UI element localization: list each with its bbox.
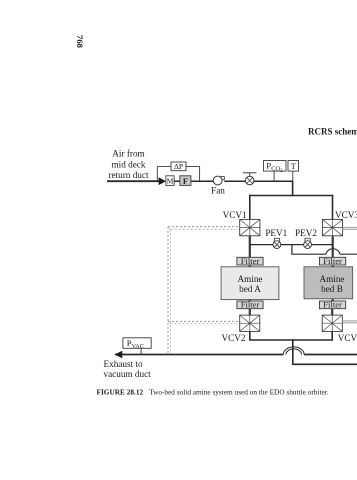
wire: down leg from main line to manifold: [292, 180, 294, 196]
wire: fan to valve: [224, 180, 245, 182]
connector bed B to filter B bottom: [331, 299, 334, 301]
wire: exhaust line left section: [115, 354, 283, 356]
F box (filter, shaded): [180, 176, 191, 186]
wire: VCV2 down and right to tee: [250, 331, 294, 340]
svg-text:Exhaust to: Exhaust to: [104, 359, 143, 369]
wire: PEV cross line: [250, 244, 333, 246]
filter A bottom: [237, 301, 263, 309]
control line (dashed) upper pair to VCV1: [168, 226, 240, 228]
svg-text:F: F: [183, 177, 188, 186]
crossover arc over VCV3-filter line: [326, 249, 340, 254]
svg-text:M: M: [167, 177, 174, 186]
amine bed A: [221, 267, 279, 300]
wire: PVAC tap: [140, 348, 142, 354]
svg-text:PEV2: PEV2: [295, 228, 317, 238]
wire: VCV1 to filter A top: [249, 236, 251, 257]
wire: M-F to fan (drawn beneath boxes): [174, 180, 214, 182]
valve VCV1: [240, 219, 260, 235]
wire: manifold drop to VCV1: [249, 195, 251, 220]
connector filter A top to bed A: [249, 265, 252, 267]
filter B bottom: [320, 301, 346, 309]
wire: filter A bottom to VCV2: [249, 309, 251, 315]
wire: T tap: [292, 171, 294, 180]
PCO2 sensor box: [264, 161, 287, 172]
svg-text:Filter: Filter: [323, 300, 342, 310]
crossover double arc over tee vertical: [283, 347, 304, 355]
control line (gray pair) from VCV3 to right edge: [343, 226, 357, 228]
svg-text:Amine: Amine: [237, 274, 262, 284]
wire: branch to right edge: [340, 253, 357, 255]
svg-text:return duct: return duct: [108, 170, 148, 180]
svg-text:RCRS schema: RCRS schema: [308, 127, 357, 137]
svg-text:VCV2: VCV2: [222, 333, 246, 343]
manual valve (circle-X with T handle): [249, 173, 251, 176]
svg-text:vacuum duct: vacuum duct: [104, 369, 152, 379]
svg-text:ΔP: ΔP: [174, 162, 183, 171]
svg-text:bed B: bed B: [321, 284, 343, 294]
PVAC sensor box: [123, 338, 151, 349]
wire: PCO2 tap: [273, 171, 275, 180]
svg-text:VCV4: VCV4: [338, 333, 357, 343]
svg-text:mid deck: mid deck: [112, 159, 146, 169]
svg-text:T: T: [291, 161, 297, 171]
svg-text:Filter: Filter: [241, 256, 260, 266]
svg-text:FIGURE 28.12Two-bed solid amin: FIGURE 28.12Two-bed solid amine system u…: [97, 388, 329, 397]
exhaust arrowhead: [115, 351, 123, 359]
wire: VCV4 down and left to tee: [292, 331, 332, 340]
valve PEV1: [273, 238, 281, 248]
wire: top manifold: [249, 195, 333, 197]
bypass loop around dP sensor: [157, 167, 171, 181]
svg-text:Filter: Filter: [241, 300, 260, 310]
label: Air from mid deck return duct: [108, 149, 148, 181]
M box (muffler): [166, 176, 174, 186]
T sensor box: [288, 161, 299, 172]
wire: tee down to lower line, off right edge: [293, 340, 357, 364]
wire: PEV branch drop: [292, 245, 326, 255]
fan symbol: [221, 177, 224, 180]
amine bed B: [304, 267, 353, 299]
svg-text:bed A: bed A: [239, 284, 261, 294]
valve VCV3: [322, 219, 342, 235]
dP sensor box: [171, 162, 186, 171]
wire: VCV3 to filter B top: [332, 236, 334, 257]
wire: valve to corner below T: [254, 180, 293, 182]
valve VCV2: [240, 315, 260, 331]
wire: filter B bottom to VCV4: [331, 309, 333, 315]
valve VCV4: [322, 315, 342, 331]
control line (gray pair) from VCV4 to right edge: [342, 320, 357, 322]
wire: manifold drop to VCV3: [332, 195, 334, 220]
control line (dashed) vertical pair: [167, 227, 169, 354]
svg-text:VCV1: VCV1: [223, 210, 247, 220]
valve PEV2: [304, 238, 312, 248]
connector bed A to filter A bottom: [249, 300, 252, 301]
connector filter B top to bed B: [331, 265, 334, 267]
filter A top: [237, 257, 263, 265]
svg-text:PEV1: PEV1: [265, 228, 287, 238]
wire: exhaust line right section: [304, 354, 357, 356]
control line (dashed) lower pair to VCV2: [168, 320, 240, 322]
svg-text:Filter: Filter: [323, 256, 342, 266]
wire: supply duct line: [107, 180, 160, 182]
arrowhead into M box: [159, 177, 166, 185]
svg-text:VCV3: VCV3: [335, 210, 357, 220]
label: Exhaust to vacuum duct: [104, 359, 152, 379]
svg-text:Amine: Amine: [319, 274, 344, 284]
filter B top: [320, 257, 346, 265]
svg-text:768: 768: [75, 35, 85, 49]
svg-text:Air from: Air from: [112, 149, 144, 159]
svg-text:Fan: Fan: [211, 185, 225, 195]
